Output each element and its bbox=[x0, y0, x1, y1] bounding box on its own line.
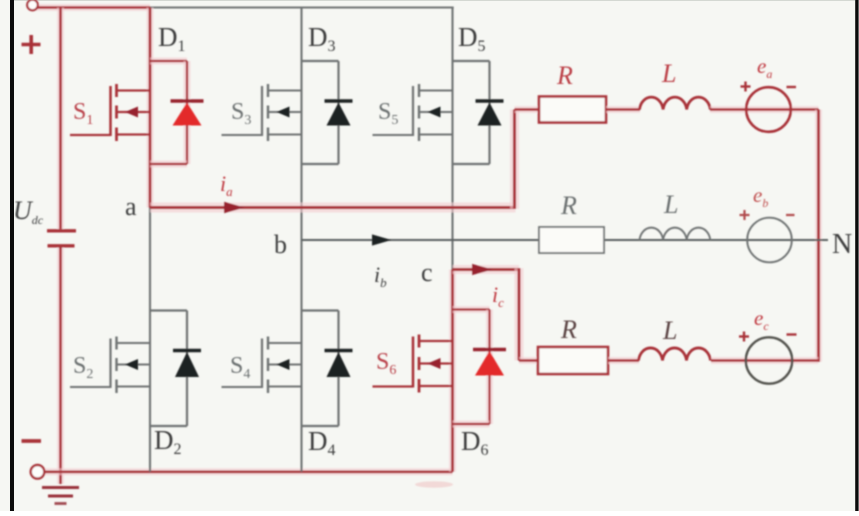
label - (DC negative) bbox=[22, 439, 42, 443]
label D6 bbox=[461, 426, 489, 459]
label e_c bbox=[754, 306, 769, 333]
svg-text:R: R bbox=[560, 315, 577, 344]
wire left DC link vertical upper bbox=[57, 8, 64, 230]
wire leg a lower (gray) bbox=[149, 208, 151, 472]
label Udc bbox=[13, 196, 44, 227]
wire leg a upper (red through S1) bbox=[147, 8, 154, 208]
polarity - (e_c) bbox=[787, 333, 797, 335]
diode D1 (bright red) bbox=[150, 61, 204, 164]
diode D3 (black) bbox=[302, 61, 353, 164]
wire bottom DC- rail bbox=[44, 468, 453, 475]
label S5 bbox=[378, 99, 398, 128]
label S2 bbox=[73, 353, 93, 382]
MOSFET S2 bbox=[70, 337, 150, 394]
svg-text:R: R bbox=[556, 61, 573, 90]
source e_a circle bbox=[746, 87, 791, 132]
label S3 bbox=[231, 99, 251, 128]
left frame border bbox=[10, 0, 14, 511]
svg-text:N: N bbox=[832, 229, 852, 260]
diode D4 (black) bbox=[302, 311, 353, 427]
faint top scan edge bbox=[14, 0, 855, 2]
wire phase c into R bbox=[519, 357, 539, 364]
label D2 bbox=[154, 425, 182, 458]
node a bbox=[125, 192, 137, 221]
MOSFET S5 bbox=[373, 84, 453, 141]
wire L to source (phase a) bbox=[710, 106, 819, 113]
label e_a bbox=[757, 54, 772, 81]
resistor R (phase c) bbox=[538, 347, 608, 374]
wire left DC link vertical lower bbox=[57, 248, 64, 485]
wire L to source (phase c) bbox=[711, 357, 819, 364]
capacitor C (DC link) plates bbox=[47, 231, 76, 246]
svg-text:L: L bbox=[663, 190, 678, 219]
label L (phase a) bbox=[661, 59, 676, 88]
label S4 bbox=[230, 353, 250, 382]
diode D6 (bright red) bbox=[453, 310, 507, 425]
label D4 bbox=[308, 426, 336, 459]
inductor L (phase b) bbox=[640, 228, 711, 240]
label D5 bbox=[458, 22, 486, 55]
label ia bbox=[220, 171, 233, 199]
diode D5 (black) bbox=[453, 61, 504, 164]
label L (phase b) bbox=[663, 190, 678, 219]
svg-text:b: b bbox=[274, 230, 287, 259]
label ib bbox=[374, 262, 387, 290]
polarity + (e_a) bbox=[741, 82, 751, 92]
label S1 bbox=[73, 99, 93, 128]
resistor R (phase a) bbox=[539, 97, 606, 123]
wire leg c lower (red through S6) bbox=[449, 270, 456, 472]
node N label bbox=[832, 229, 852, 260]
label L (phase c) bbox=[662, 316, 677, 345]
svg-text:L: L bbox=[661, 59, 676, 88]
wire phase a riser bbox=[510, 110, 519, 209]
label R (phase b) bbox=[560, 191, 577, 220]
svg-text:a: a bbox=[125, 192, 137, 221]
polarity + (e_c) bbox=[739, 332, 749, 342]
wire phase b horizontal (gray) bbox=[302, 239, 829, 241]
terminal - circle (bottom left) bbox=[31, 465, 45, 479]
MOSFET S6 (red) bbox=[373, 335, 453, 393]
current arrow ia bbox=[224, 202, 245, 213]
MOSFET S3 bbox=[222, 84, 302, 141]
right frame border bbox=[855, 0, 858, 511]
MOSFET S1 bbox=[70, 84, 150, 141]
svg-text:c: c bbox=[421, 258, 433, 287]
terminal + circle (top left) bbox=[27, 0, 38, 10]
wire R to L (phase a) bbox=[606, 106, 640, 113]
polarity - (e_b) bbox=[786, 214, 795, 216]
wire top DC+ rail (gray segment) bbox=[150, 6, 454, 8]
ground symbol bbox=[42, 488, 79, 504]
current arrow ic bbox=[472, 264, 493, 275]
polarity + (e_b) bbox=[740, 210, 750, 220]
label e_b bbox=[753, 183, 768, 210]
svg-text:L: L bbox=[662, 316, 677, 345]
MOSFET S4 bbox=[222, 337, 302, 394]
wire phase a into R bbox=[515, 106, 541, 113]
wire right rail (red) bbox=[815, 110, 822, 362]
source e_b circle bbox=[747, 218, 792, 263]
label + (DC positive) bbox=[22, 35, 41, 54]
wire leg c upper (gray) bbox=[451, 8, 453, 270]
resistor R (phase b) bbox=[539, 227, 604, 253]
label ic bbox=[492, 282, 504, 310]
label S6 bbox=[376, 349, 396, 378]
node b bbox=[274, 230, 287, 259]
svg-text:R: R bbox=[560, 191, 577, 220]
wire phase c horizontal (red) bbox=[453, 265, 520, 274]
label R (phase a) bbox=[556, 61, 573, 90]
stray pink mark bottom center bbox=[415, 481, 453, 487]
wire R to L (phase c) bbox=[608, 357, 639, 364]
label D3 bbox=[308, 22, 336, 55]
label D1 bbox=[158, 22, 186, 55]
wire leg b (gray) bbox=[300, 8, 302, 472]
label R (phase c) bbox=[560, 315, 577, 344]
wire phase c dropper bbox=[515, 268, 524, 360]
node c bbox=[421, 258, 433, 287]
current arrow ib bbox=[372, 234, 392, 245]
inductor L (phase a) bbox=[640, 97, 711, 109]
source e_c circle bbox=[746, 337, 792, 383]
wire top DC+ rail (red segment) bbox=[36, 4, 151, 11]
inductor L (phase c) bbox=[639, 348, 711, 361]
diode D2 (black) bbox=[150, 311, 201, 427]
polarity - (e_a) bbox=[787, 86, 797, 88]
wire phase a horizontal (red) bbox=[150, 203, 516, 213]
